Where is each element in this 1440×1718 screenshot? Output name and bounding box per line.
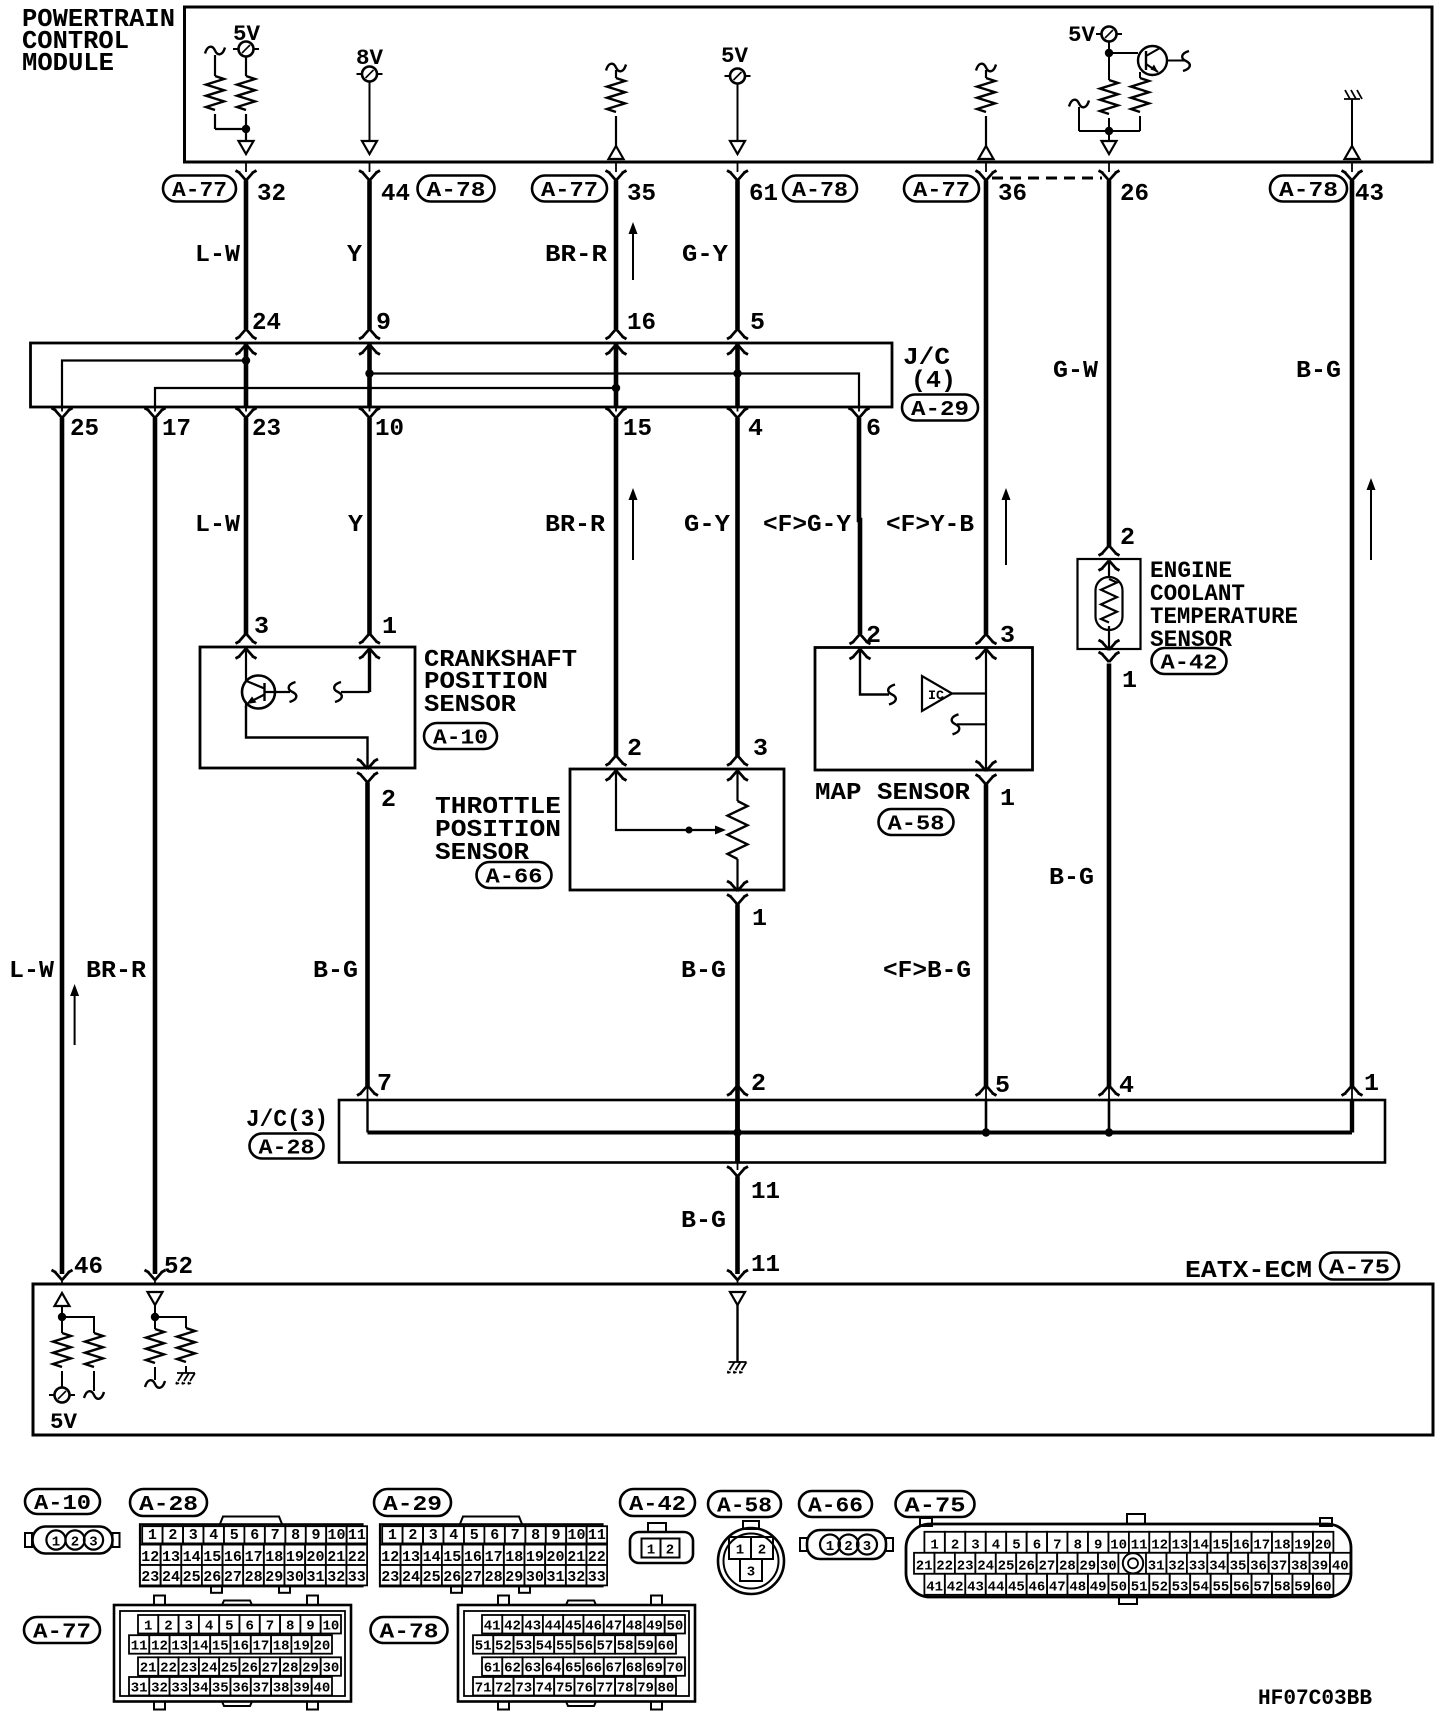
- svg-text:14: 14: [183, 1549, 201, 1566]
- svg-text:33: 33: [171, 1680, 188, 1696]
- wire label Y (to crank): [348, 512, 364, 539]
- svg-text:2: 2: [866, 623, 881, 650]
- svg-text:7: 7: [511, 1527, 520, 1544]
- svg-text:15: 15: [443, 1549, 461, 1566]
- throttle wiper wire: [616, 771, 726, 835]
- entry fork EATX pin52: [145, 1270, 166, 1284]
- break squiggle above R4: [976, 64, 996, 78]
- exit fork ECT pin1: [1099, 640, 1120, 662]
- svg-text:8: 8: [286, 1618, 294, 1634]
- pin 46 wire to node: [61, 1306, 63, 1333]
- pin 52 triangle (output): [148, 1292, 163, 1305]
- 5V source circle (EATX): [49, 1388, 75, 1403]
- svg-text:32: 32: [327, 1569, 345, 1586]
- svg-text:2: 2: [751, 1071, 766, 1098]
- svg-text:25: 25: [70, 416, 99, 443]
- svg-text:26: 26: [1120, 181, 1149, 208]
- direction arrow (lower left, up): [70, 984, 79, 1045]
- resistor R9: [146, 1329, 164, 1374]
- svg-text:36: 36: [1250, 1559, 1267, 1575]
- svg-text:17: 17: [162, 416, 191, 443]
- svg-text:11: 11: [131, 1639, 148, 1655]
- svg-text:10: 10: [322, 1618, 339, 1634]
- resistor R3 (PCM internal, pin 35): [607, 78, 625, 146]
- svg-text:5V: 5V: [50, 1410, 78, 1435]
- svg-text:29: 29: [505, 1569, 523, 1586]
- svg-text:5: 5: [1012, 1538, 1020, 1554]
- svg-text:5: 5: [995, 1073, 1010, 1100]
- svg-text:14: 14: [1192, 1538, 1209, 1554]
- svg-text:22: 22: [588, 1549, 606, 1566]
- svg-text:2: 2: [164, 1618, 172, 1634]
- wire label G-W: [1053, 358, 1099, 385]
- svg-text:A-10: A-10: [34, 1493, 91, 1516]
- svg-text:MODULE: MODULE: [22, 48, 114, 78]
- svg-text:17: 17: [1253, 1538, 1270, 1554]
- MAP sensor box: [815, 648, 1033, 771]
- svg-text:2: 2: [951, 1538, 959, 1554]
- wire B-G crank pin2 to J/C3 pin7: [365, 783, 370, 1087]
- svg-text:21: 21: [567, 1549, 585, 1566]
- entry chevron J/C3 at x=1352: [1342, 1086, 1363, 1101]
- wire (F)Y-B PCM pin36 to MAP pin3: [984, 181, 989, 635]
- svg-text:54: 54: [1192, 1580, 1209, 1596]
- svg-text:5: 5: [470, 1527, 479, 1544]
- entry chevron J/C3 at x=367.5: [357, 1086, 378, 1101]
- wire label BR-R (lower left): [86, 958, 147, 985]
- svg-text:A-78: A-78: [792, 180, 848, 203]
- entry fork EATX pin46: [52, 1270, 73, 1284]
- exit fork crank pin2: [357, 759, 378, 783]
- svg-text:54: 54: [536, 1639, 553, 1655]
- svg-text:41: 41: [484, 1618, 501, 1634]
- junction node on wire 5: [733, 369, 741, 377]
- 5V source circle (pin 26): [1096, 27, 1122, 42]
- svg-text:A-28: A-28: [259, 1138, 315, 1161]
- svg-text:17: 17: [245, 1549, 263, 1566]
- J/C4 pin 25 label: [70, 416, 99, 443]
- wire B-G PCM pin43 down to J/C3 pin1: [1350, 181, 1355, 1087]
- svg-text:L-W: L-W: [9, 958, 55, 985]
- crank sensor internal wire pin3: [245, 649, 247, 708]
- wire label L-W (to crank): [195, 512, 241, 539]
- svg-text:71: 71: [475, 1680, 492, 1696]
- svg-text:20: 20: [546, 1549, 564, 1566]
- drawing number: [1258, 1686, 1372, 1711]
- svg-text:13: 13: [402, 1549, 420, 1566]
- junction node J/C3 pin4: [1105, 1128, 1113, 1136]
- svg-text:8: 8: [1074, 1538, 1082, 1554]
- svg-text:EATX-ECM: EATX-ECM: [1185, 1258, 1312, 1285]
- svg-text:35: 35: [627, 181, 656, 208]
- svg-text:3: 3: [189, 1527, 198, 1544]
- resistor R2 (PCM internal, pin 32 right): [237, 57, 255, 127]
- break squiggle right of pickup: [289, 682, 297, 702]
- pin number 44: [381, 181, 410, 208]
- svg-text:IC: IC: [928, 688, 944, 703]
- svg-text:G-Y: G-Y: [684, 512, 731, 539]
- svg-text:22: 22: [936, 1559, 953, 1575]
- svg-text:25: 25: [423, 1569, 441, 1586]
- svg-text:A-78: A-78: [380, 1622, 439, 1645]
- svg-text:60: 60: [657, 1639, 674, 1655]
- svg-text:63: 63: [524, 1661, 541, 1677]
- svg-text:12: 12: [381, 1549, 399, 1566]
- wire G-W PCM pin26 to ECT pin2: [1107, 181, 1112, 547]
- svg-text:59: 59: [1294, 1580, 1311, 1596]
- connector label A-77 (pin 35): [532, 176, 607, 204]
- svg-text:76: 76: [576, 1680, 593, 1696]
- entry chevrons into J/C4 at x=369.5: [359, 329, 380, 355]
- svg-text:18: 18: [505, 1549, 523, 1566]
- connector label A-78 (pinout): [371, 1617, 448, 1645]
- connector label A-10 (pinout): [25, 1489, 100, 1516]
- connector label A-78 (pin 44): [418, 176, 495, 204]
- svg-text:B-G: B-G: [1049, 865, 1094, 892]
- svg-text:10: 10: [1110, 1538, 1127, 1554]
- svg-text:35: 35: [212, 1680, 229, 1696]
- J/C4 pass-through wire 5-4: [735, 343, 740, 407]
- svg-text:7: 7: [377, 1071, 392, 1098]
- svg-text:74: 74: [536, 1680, 553, 1696]
- svg-text:13: 13: [171, 1639, 188, 1655]
- ENGINE COOLANT TEMPERATURE SENSOR caption: [1150, 558, 1298, 653]
- terminal fork at PCM pin wire x=616: [606, 164, 627, 181]
- svg-text:3: 3: [185, 1618, 193, 1634]
- crank internal ground wire to pin2: [246, 706, 368, 768]
- svg-text:Y: Y: [348, 512, 364, 539]
- entry fork EATX pin11: [727, 1270, 748, 1284]
- MAP internal wire pin2: [860, 649, 889, 695]
- break squiggle left of R5: [1069, 100, 1109, 131]
- svg-text:34: 34: [192, 1680, 209, 1696]
- svg-text:1: 1: [736, 1543, 744, 1559]
- pin 46 triangle (input): [55, 1293, 70, 1306]
- wire B-G throttle pin1 to J/C3 pin2: [735, 905, 740, 1163]
- J/C4 pass-through wire 16-15: [614, 343, 619, 407]
- dashed pairing line pins 36-26: [992, 177, 1102, 180]
- svg-text:A-77: A-77: [541, 180, 598, 203]
- svg-text:69: 69: [646, 1661, 663, 1677]
- svg-text:1: 1: [382, 614, 397, 641]
- throttle pin 2 label: [627, 736, 642, 763]
- svg-text:80: 80: [657, 1680, 674, 1696]
- svg-text:25: 25: [183, 1569, 201, 1586]
- svg-text:59: 59: [637, 1639, 654, 1655]
- wire Y J/C4 pin10 to crank sensor pin1: [367, 418, 372, 634]
- svg-text:40: 40: [1332, 1559, 1349, 1575]
- connector label A-58: [879, 809, 954, 837]
- wire Y pin44 to J/C4 pin9: [367, 181, 372, 330]
- svg-text:BR-R: BR-R: [545, 512, 606, 539]
- 5V source circle (pin 61): [725, 69, 751, 84]
- svg-text:29: 29: [265, 1569, 283, 1586]
- J/C3 pin 5 label: [995, 1073, 1010, 1100]
- connector label A-75 (pinout): [896, 1491, 975, 1519]
- svg-text:34: 34: [1209, 1559, 1226, 1575]
- svg-text:12: 12: [141, 1549, 159, 1566]
- svg-text:17: 17: [485, 1549, 503, 1566]
- svg-text:1: 1: [144, 1618, 152, 1634]
- svg-text:31: 31: [546, 1569, 564, 1586]
- connector label A-29 (pinout): [374, 1489, 451, 1517]
- connector label A-66: [477, 862, 552, 890]
- wire label Y: [347, 242, 363, 269]
- exit fork J/C4 pin 15: [606, 407, 627, 418]
- exit fork J/C4 pin 4: [727, 407, 748, 418]
- wire L-W pin32 to J/C4 pin24: [244, 181, 249, 330]
- J/C4 pin 9 label: [376, 310, 391, 337]
- svg-text:A-77: A-77: [172, 180, 227, 203]
- wire label G-Y (to throttle): [684, 512, 731, 539]
- svg-text:15: 15: [623, 416, 652, 443]
- svg-text:43: 43: [524, 1618, 541, 1634]
- svg-text:27: 27: [261, 1661, 278, 1677]
- connector label A-42 (pinout): [620, 1489, 695, 1517]
- svg-text:26: 26: [443, 1569, 461, 1586]
- connector label A-28 (J/C3): [250, 1134, 324, 1161]
- svg-text:15: 15: [212, 1639, 229, 1655]
- transistor Q1: [1109, 46, 1186, 75]
- junction connector J/C(3) box: [339, 1100, 1385, 1163]
- junction node J/C3 pin2: [733, 1128, 741, 1136]
- svg-text:11: 11: [751, 1179, 780, 1206]
- svg-text:2: 2: [1120, 525, 1135, 552]
- wire G-Y J/C4 pin4 to throttle pin3: [735, 418, 740, 756]
- svg-text:A-58: A-58: [888, 814, 945, 837]
- entry chevrons throttle pin2: [606, 756, 627, 781]
- svg-text:18: 18: [1274, 1538, 1291, 1554]
- svg-text:25: 25: [221, 1661, 238, 1677]
- terminal fork at PCM pin wire x=737.5: [727, 164, 748, 181]
- svg-text:49: 49: [1090, 1580, 1107, 1596]
- svg-text:19: 19: [526, 1549, 544, 1566]
- EATX-ECM caption: [1185, 1258, 1312, 1285]
- svg-text:68: 68: [626, 1661, 643, 1677]
- wire label (F)G-Y: [763, 512, 852, 539]
- svg-text:A-78: A-78: [427, 180, 486, 203]
- J/C3 pin 4 label: [1119, 1073, 1134, 1100]
- svg-text:A-28: A-28: [139, 1494, 198, 1517]
- svg-text:B-G: B-G: [681, 958, 726, 985]
- wire 8V to pin 44 triangle: [362, 82, 377, 155]
- svg-text:3: 3: [971, 1538, 979, 1554]
- svg-text:32: 32: [1168, 1559, 1185, 1575]
- svg-text:A-77: A-77: [33, 1622, 91, 1645]
- svg-text:A-78: A-78: [1279, 180, 1338, 203]
- wire 5V down to node: [1108, 42, 1110, 81]
- svg-text:78: 78: [617, 1680, 634, 1696]
- connector A-77 pinout drawing: [114, 1596, 351, 1710]
- crank internal wire pin1: [341, 647, 370, 692]
- J/C3 pass-through pin2-pin11: [735, 1100, 740, 1163]
- svg-text:21: 21: [327, 1549, 345, 1566]
- resistor R1 (PCM internal, pin 32 left): [206, 76, 246, 129]
- svg-text:9: 9: [1094, 1538, 1102, 1554]
- svg-text:2: 2: [666, 1543, 674, 1559]
- CRANKSHAFT POSITION SENSOR caption: [424, 647, 577, 719]
- connector A-29 pinout drawing: [380, 1517, 607, 1593]
- J/C4 bus wire to pin 25: [62, 361, 246, 408]
- svg-text:2: 2: [758, 1543, 766, 1559]
- wire B-G ECT pin1 to J/C3 pin4: [1107, 664, 1112, 1087]
- svg-text:29: 29: [302, 1661, 319, 1677]
- svg-text:47: 47: [1049, 1580, 1066, 1596]
- connector A-58 pinout drawing: [718, 1521, 784, 1594]
- svg-text:4: 4: [992, 1538, 1000, 1554]
- svg-text:60: 60: [1315, 1580, 1332, 1596]
- crankshaft position sensor box: [200, 647, 415, 768]
- branch wire to R8: [62, 1317, 94, 1333]
- entry chevrons MAP pin2: [850, 634, 871, 659]
- svg-text:A-75: A-75: [1329, 1258, 1390, 1281]
- wire label B-G (ECT gnd): [1049, 865, 1094, 892]
- J/C4 pin 5 label: [750, 310, 765, 337]
- exit fork throttle pin1: [727, 881, 748, 905]
- svg-text:5: 5: [225, 1618, 233, 1634]
- pin 11 triangle (output): [730, 1292, 745, 1305]
- svg-text:41: 41: [926, 1580, 943, 1596]
- svg-text:24: 24: [402, 1569, 420, 1586]
- svg-text:A-29: A-29: [383, 1494, 442, 1517]
- IC amplifier triangle: [922, 676, 952, 711]
- branch wire to R10: [155, 1317, 186, 1328]
- svg-text:61: 61: [749, 181, 778, 208]
- svg-text:21: 21: [140, 1661, 157, 1677]
- wire label B-G (throttle gnd): [681, 958, 726, 985]
- svg-text:B-G: B-G: [1296, 358, 1341, 385]
- svg-text:44: 44: [381, 181, 410, 208]
- connector A-10 pinout drawing: [25, 1527, 120, 1554]
- terminal fork at PCM pin wire x=369.5: [359, 164, 380, 181]
- svg-text:29: 29: [1079, 1559, 1096, 1575]
- thermistor element: [1096, 561, 1123, 649]
- svg-text:14: 14: [192, 1639, 209, 1655]
- svg-text:27: 27: [1038, 1559, 1055, 1575]
- svg-text:4: 4: [449, 1527, 458, 1544]
- wire gnd to pin 43 triangle: [1351, 99, 1353, 146]
- THROTTLE POSITION SENSOR caption: [435, 794, 561, 867]
- svg-text:67: 67: [605, 1661, 622, 1677]
- ECT sensor box: [1078, 559, 1141, 649]
- svg-text:70: 70: [666, 1661, 683, 1677]
- svg-text:53: 53: [1172, 1580, 1189, 1596]
- terminal fork at PCM pin wire x=246: [236, 164, 257, 181]
- svg-text:46: 46: [585, 1618, 602, 1634]
- svg-text:21: 21: [916, 1559, 933, 1575]
- svg-text:9: 9: [311, 1527, 320, 1544]
- svg-text:42: 42: [504, 1618, 521, 1634]
- svg-text:23: 23: [957, 1559, 974, 1575]
- J/C4 bus wire to pin 17: [155, 388, 616, 407]
- connector label A-66 (pinout): [799, 1491, 872, 1519]
- exit fork MAP pin1: [976, 761, 997, 785]
- svg-text:11: 11: [751, 1252, 780, 1279]
- svg-text:6: 6: [1033, 1538, 1041, 1554]
- internal ground mark (pin 43): [1344, 90, 1362, 99]
- svg-text:1: 1: [930, 1538, 938, 1554]
- svg-text:66: 66: [585, 1661, 602, 1677]
- J/C(4) caption: [903, 345, 956, 395]
- svg-text:3: 3: [1000, 623, 1015, 650]
- J/C3 pin 1 label: [1364, 1071, 1379, 1098]
- svg-text:2: 2: [844, 1539, 852, 1555]
- svg-text:35: 35: [1230, 1559, 1247, 1575]
- connector label A-58 (pinout): [708, 1491, 781, 1519]
- svg-text:79: 79: [637, 1680, 654, 1696]
- svg-text:33: 33: [588, 1569, 606, 1586]
- wire label B-G (to EATX): [681, 1208, 726, 1235]
- connector A-78 pinout drawing: [458, 1596, 695, 1710]
- break squiggle on MAP pin2: [888, 685, 896, 705]
- wire 5V to pin 61 triangle: [730, 84, 745, 155]
- svg-text:G-Y: G-Y: [682, 242, 729, 269]
- junction node (5V / transistor base): [1105, 49, 1113, 57]
- entry chevron J/C3 at x=1109: [1099, 1086, 1120, 1101]
- svg-text:14: 14: [423, 1549, 441, 1566]
- entry chevrons into J/C4 at x=616: [606, 329, 627, 355]
- svg-text:3: 3: [89, 1535, 97, 1551]
- svg-text:16: 16: [232, 1639, 249, 1655]
- svg-text:<F>G-Y: <F>G-Y: [763, 512, 852, 539]
- svg-text:16: 16: [224, 1549, 242, 1566]
- entry chevrons throttle pin3: [727, 756, 748, 781]
- wire label (F)B-G: [883, 958, 971, 985]
- svg-text:61: 61: [484, 1661, 501, 1677]
- pin 46 label: [74, 1254, 103, 1281]
- J/C4 pin 10 label: [375, 416, 404, 443]
- wire label B-G (crank gnd): [313, 958, 358, 985]
- svg-text:7: 7: [266, 1618, 274, 1634]
- svg-text:2: 2: [71, 1535, 79, 1551]
- svg-text:9: 9: [551, 1527, 560, 1544]
- connector A-75 pinout drawing: [906, 1514, 1351, 1604]
- svg-text:47: 47: [605, 1618, 622, 1634]
- svg-text:52: 52: [1151, 1580, 1168, 1596]
- svg-text:65: 65: [565, 1661, 582, 1677]
- svg-text:28: 28: [245, 1569, 263, 1586]
- svg-text:4: 4: [748, 416, 763, 443]
- J/C4 pin 16 label: [627, 310, 656, 337]
- svg-text:27: 27: [464, 1569, 482, 1586]
- MAP pin 1 label: [1000, 786, 1015, 813]
- svg-text:A-58: A-58: [717, 1496, 772, 1519]
- svg-text:13: 13: [1172, 1538, 1189, 1554]
- svg-text:A-75: A-75: [905, 1496, 966, 1519]
- connector label A-42: [1152, 648, 1227, 676]
- break squiggle above R1: [205, 47, 225, 76]
- svg-text:31: 31: [306, 1569, 324, 1586]
- svg-text:43: 43: [1355, 181, 1384, 208]
- entry chevron J/C3 at x=986: [976, 1086, 997, 1101]
- pickup coil symbol: [242, 676, 290, 709]
- svg-text:55: 55: [556, 1639, 573, 1655]
- wire label L-W: [195, 242, 241, 269]
- svg-text:8: 8: [291, 1527, 300, 1544]
- svg-text:16: 16: [1233, 1538, 1250, 1554]
- svg-text:28: 28: [485, 1569, 503, 1586]
- junction node on wire 16: [612, 384, 620, 392]
- junction connector J/C(4) box: [31, 343, 893, 407]
- J/C4 pin 15 label: [623, 416, 652, 443]
- connector label A-77 (pin 36): [904, 176, 979, 204]
- svg-text:10: 10: [567, 1527, 585, 1544]
- terminal fork at PCM pin wire x=1352: [1342, 164, 1363, 181]
- wire to pin 32 output triangle: [239, 129, 254, 154]
- svg-text:50: 50: [666, 1618, 683, 1634]
- 5V supply label (pin 32): [233, 22, 261, 47]
- break squiggle on MAP output: [952, 714, 960, 734]
